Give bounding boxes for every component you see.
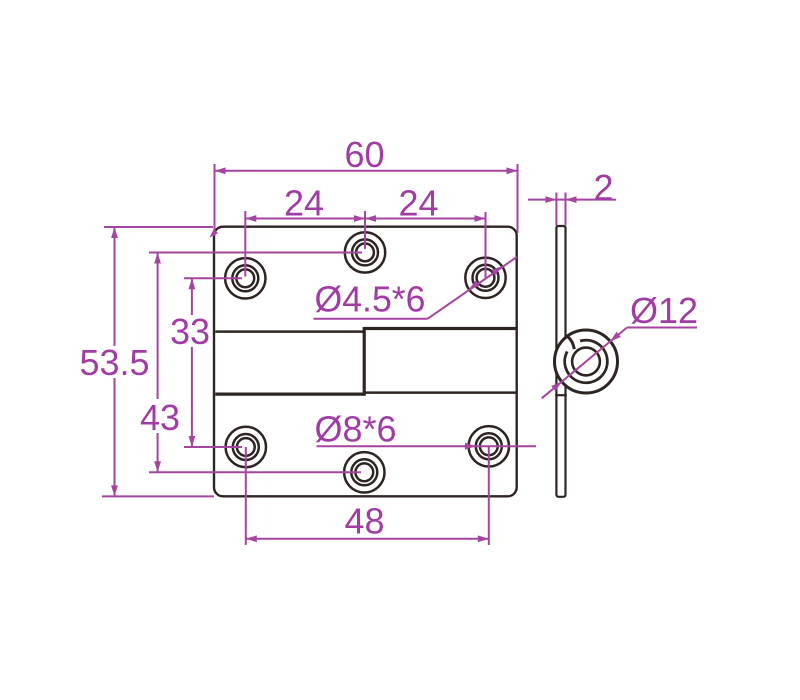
- svg-text:Ø8*6: Ø8*6: [314, 409, 396, 450]
- hinge joint line right lower: [364, 391, 516, 394]
- dim 60 extension left: [214, 164, 216, 236]
- svg-text:Ø4.5*6: Ø4.5*6: [315, 279, 426, 320]
- dim 33 extension top: [184, 277, 242, 279]
- dim 48 line: [246, 538, 489, 540]
- knuckle pin hole: [572, 348, 600, 376]
- svg-text:33: 33: [170, 311, 210, 352]
- hinge joint line right upper: [364, 327, 516, 330]
- dim 24 extension right: [485, 212, 487, 278]
- svg-text:Ø12: Ø12: [630, 290, 698, 331]
- hole top-left: [225, 258, 265, 298]
- dim 43 extension bottom: [149, 471, 361, 473]
- svg-text:48: 48: [344, 501, 384, 542]
- dim 60 extension tick at corner: [207, 229, 218, 240]
- dim 24 extension left: [244, 211, 246, 277]
- hole bottom-middle: [344, 452, 384, 492]
- hole top-right: [465, 258, 505, 298]
- label dia4.5x6 underline: [314, 318, 428, 320]
- dim 2 line: [528, 199, 616, 201]
- dim 2 extension left: [555, 193, 557, 226]
- knuckle sheet end hook: [566, 336, 575, 350]
- hole bottom-left: [226, 427, 266, 467]
- label dia12 leader: [542, 328, 627, 399]
- dim 48 extension left: [245, 447, 247, 545]
- hinge joint line left upper: [215, 330, 364, 333]
- dim 53.5 line: [114, 227, 116, 346]
- dim 43 line: [157, 253, 159, 400]
- label dia8x6 leader: [317, 445, 537, 447]
- hinge joint step: [363, 327, 366, 396]
- hole top-middle: [345, 232, 385, 272]
- svg-text:53.5: 53.5: [79, 342, 149, 383]
- hinge joint line left lower: [215, 393, 364, 396]
- knuckle outer circle: [555, 330, 618, 393]
- dim 2 extension right: [565, 193, 567, 226]
- svg-text:24: 24: [284, 183, 324, 224]
- label dia12 underline: [627, 327, 697, 329]
- dim 33 line: [191, 278, 193, 315]
- knuckle-plate tangent tick: [555, 394, 567, 396]
- hole bottom-right: [469, 426, 509, 466]
- dim 43 extension top: [149, 252, 362, 254]
- svg-text:24: 24: [398, 183, 438, 224]
- svg-text:43: 43: [140, 397, 180, 438]
- svg-text:2: 2: [593, 167, 613, 208]
- svg-text:60: 60: [344, 134, 384, 175]
- dim 60 line: [215, 170, 518, 172]
- dim 48 extension right: [488, 446, 490, 545]
- knuckle inner sheet surface arc: [565, 340, 608, 383]
- dim 60 extension right: [517, 164, 519, 233]
- dim 24 line: [245, 218, 485, 220]
- dim 53.5 extension bottom: [102, 495, 214, 497]
- dim 33 extension bottom: [184, 446, 242, 448]
- side view plate: [556, 226, 565, 497]
- dim 24 extension mid: [364, 211, 366, 249]
- front view hinge plate outline: [214, 227, 517, 497]
- label dia4.5x6 leader: [428, 257, 517, 319]
- dim 53.5 extension top: [104, 226, 213, 228]
